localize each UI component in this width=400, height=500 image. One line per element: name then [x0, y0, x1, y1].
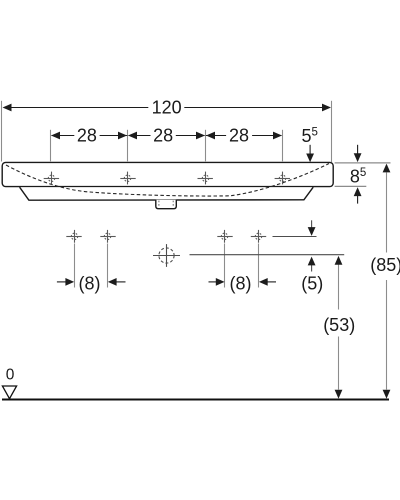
- svg-text:28: 28: [153, 125, 173, 145]
- datum zero triangle: [2, 386, 16, 399]
- svg-text:28: 28: [229, 125, 249, 145]
- (53) up arrow: [335, 256, 343, 265]
- svg-text:(8): (8): [79, 273, 101, 293]
- svg-text:28: 28: [77, 125, 97, 145]
- 8^5 lower arrow: [357, 196, 359, 204]
- dimension 120 right arrow: [322, 104, 331, 112]
- (8) right dim arrows: [209, 281, 218, 283]
- drain hole symbol: [153, 244, 180, 267]
- drain box inner dashed marks: [158, 201, 160, 208]
- tap hole cross 2: [120, 172, 135, 185]
- 8^5 bottom cap line: [335, 185, 367, 187]
- (8) left dim arrows: [57, 281, 67, 283]
- (85) down arrow: [383, 390, 391, 399]
- (85) dimension line: [386, 173, 388, 390]
- svg-text:(5): (5): [301, 273, 323, 293]
- 8^5 upper arrow: [357, 145, 359, 155]
- svg-text:0: 0: [6, 367, 15, 384]
- fastening hole cross right B: [251, 230, 266, 243]
- dimension 28 lines: [52, 135, 282, 137]
- tap hole cross 4: [275, 172, 290, 185]
- floor line: [2, 398, 389, 400]
- fastening height ref line: [273, 236, 317, 238]
- drain / overflow box below basin: [156, 200, 177, 209]
- 8^5 top cap line: [335, 162, 391, 164]
- dimension 120 line: [11, 107, 323, 109]
- tap hole cross 3: [198, 172, 213, 185]
- fastening hole cross right A: [217, 230, 232, 243]
- fastening hole cross left B: [100, 230, 115, 243]
- (5) down arrow: [311, 220, 313, 228]
- svg-text:120: 120: [152, 97, 182, 117]
- (5) up arrow: [311, 265, 313, 272]
- svg-text:(8): (8): [230, 273, 252, 293]
- extension lines of 28 dims: [51, 130, 283, 162]
- drain axis ref line: [190, 254, 345, 256]
- extension line left of 120 dim: [1, 101, 3, 162]
- svg-text:(53): (53): [323, 315, 355, 335]
- extension lines under fastening crosses: [75, 244, 259, 288]
- washbasin lower trapezoid (basin underside): [20, 187, 314, 200]
- washbasin apron (front view main body): [2, 162, 333, 186]
- svg-text:(85): (85): [370, 255, 400, 275]
- tap hole cross 1: [44, 172, 59, 185]
- (85) up arrow: [383, 164, 391, 173]
- dimension 120 left arrow: [3, 104, 12, 112]
- (53) down arrow: [335, 390, 343, 399]
- dimension 5^5 arrow: [309, 145, 311, 155]
- fastening hole cross left A: [66, 230, 81, 243]
- dashed hidden bowl outline curve: [6, 164, 329, 197]
- dimension 28 arrows: [51, 132, 282, 140]
- extension line right of 120 dim: [331, 101, 333, 162]
- (53) dimension line: [338, 265, 340, 390]
